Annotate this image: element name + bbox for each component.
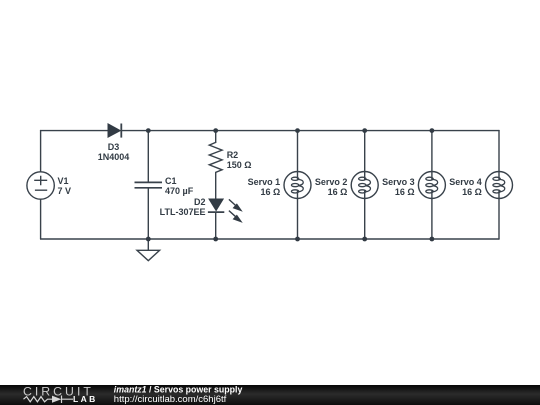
- svg-text:http://circuitlab.com/c6hj6tf: http://circuitlab.com/c6hj6tf: [114, 394, 227, 405]
- svg-text:LTL-307EE: LTL-307EE: [160, 207, 206, 217]
- svg-text:Servo 1: Servo 1: [248, 177, 281, 187]
- svg-text:470 µF: 470 µF: [165, 186, 194, 196]
- svg-text:D2: D2: [194, 197, 206, 207]
- svg-text:Servo 4: Servo 4: [449, 177, 482, 187]
- svg-text:1N4004: 1N4004: [98, 152, 130, 162]
- svg-text:V1: V1: [58, 176, 69, 186]
- svg-text:16 Ω: 16 Ω: [328, 187, 348, 197]
- svg-text:7 V: 7 V: [58, 186, 72, 196]
- svg-text:16 Ω: 16 Ω: [462, 187, 482, 197]
- svg-text:C1: C1: [165, 176, 177, 186]
- svg-text:Servo 3: Servo 3: [382, 177, 415, 187]
- svg-text:LAB: LAB: [73, 394, 98, 404]
- svg-text:R2: R2: [227, 150, 239, 160]
- svg-text:150 Ω: 150 Ω: [227, 160, 252, 170]
- svg-text:Servo 2: Servo 2: [315, 177, 348, 187]
- svg-text:16 Ω: 16 Ω: [395, 187, 415, 197]
- svg-text:D3: D3: [108, 142, 120, 152]
- svg-text:16 Ω: 16 Ω: [260, 187, 280, 197]
